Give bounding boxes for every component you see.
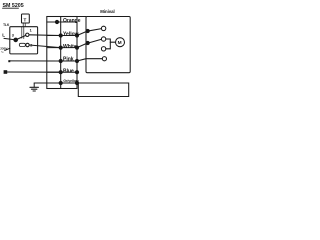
svg-text:White: White [63,44,77,50]
svg-text:TLK: TLK [3,23,10,27]
svg-text:M: M [118,40,122,46]
svg-text:L: L [2,33,5,38]
svg-text:Gr/yellow: Gr/yellow [63,79,79,83]
svg-text:Blue: Blue [63,68,74,74]
svg-text:SM 5205: SM 5205 [3,3,24,9]
svg-text:Orange: Orange [63,18,81,24]
svg-text:Pink: Pink [63,57,74,63]
svg-text:Yellow: Yellow [63,31,79,37]
svg-text:3: 3 [12,33,14,37]
svg-text:T: T [24,17,27,22]
svg-text:1: 1 [30,29,32,33]
svg-text:Minival: Minival [100,9,115,14]
svg-text:~: ~ [1,50,4,55]
svg-text:2: 2 [30,43,32,47]
